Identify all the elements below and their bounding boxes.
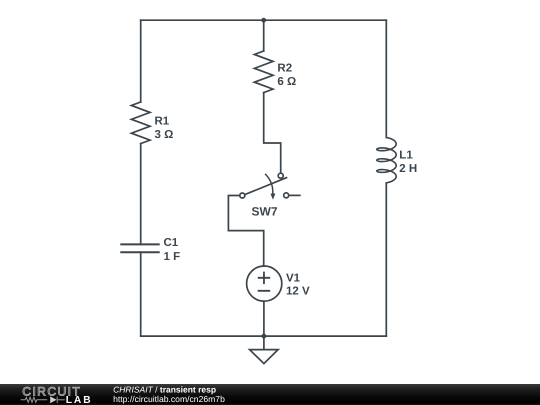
svg-text:C1: C1 [164,237,179,249]
svg-text:R1: R1 [155,116,170,128]
svg-text:LAB: LAB [66,395,93,405]
svg-text:12 V: 12 V [286,286,310,298]
svg-text:CHRISAIT / transient resp: CHRISAIT / transient resp [113,384,216,394]
svg-text:V1: V1 [286,273,301,285]
svg-text:L1: L1 [399,150,413,162]
svg-text:2 H: 2 H [399,163,417,175]
svg-text:R2: R2 [277,62,292,74]
svg-text:6 Ω: 6 Ω [277,76,296,88]
svg-text:1 F: 1 F [164,251,181,263]
svg-text:http://circuitlab.com/cn26m7b: http://circuitlab.com/cn26m7b [113,394,225,404]
svg-text:3 Ω: 3 Ω [155,129,174,141]
svg-text:SW7: SW7 [252,205,278,219]
